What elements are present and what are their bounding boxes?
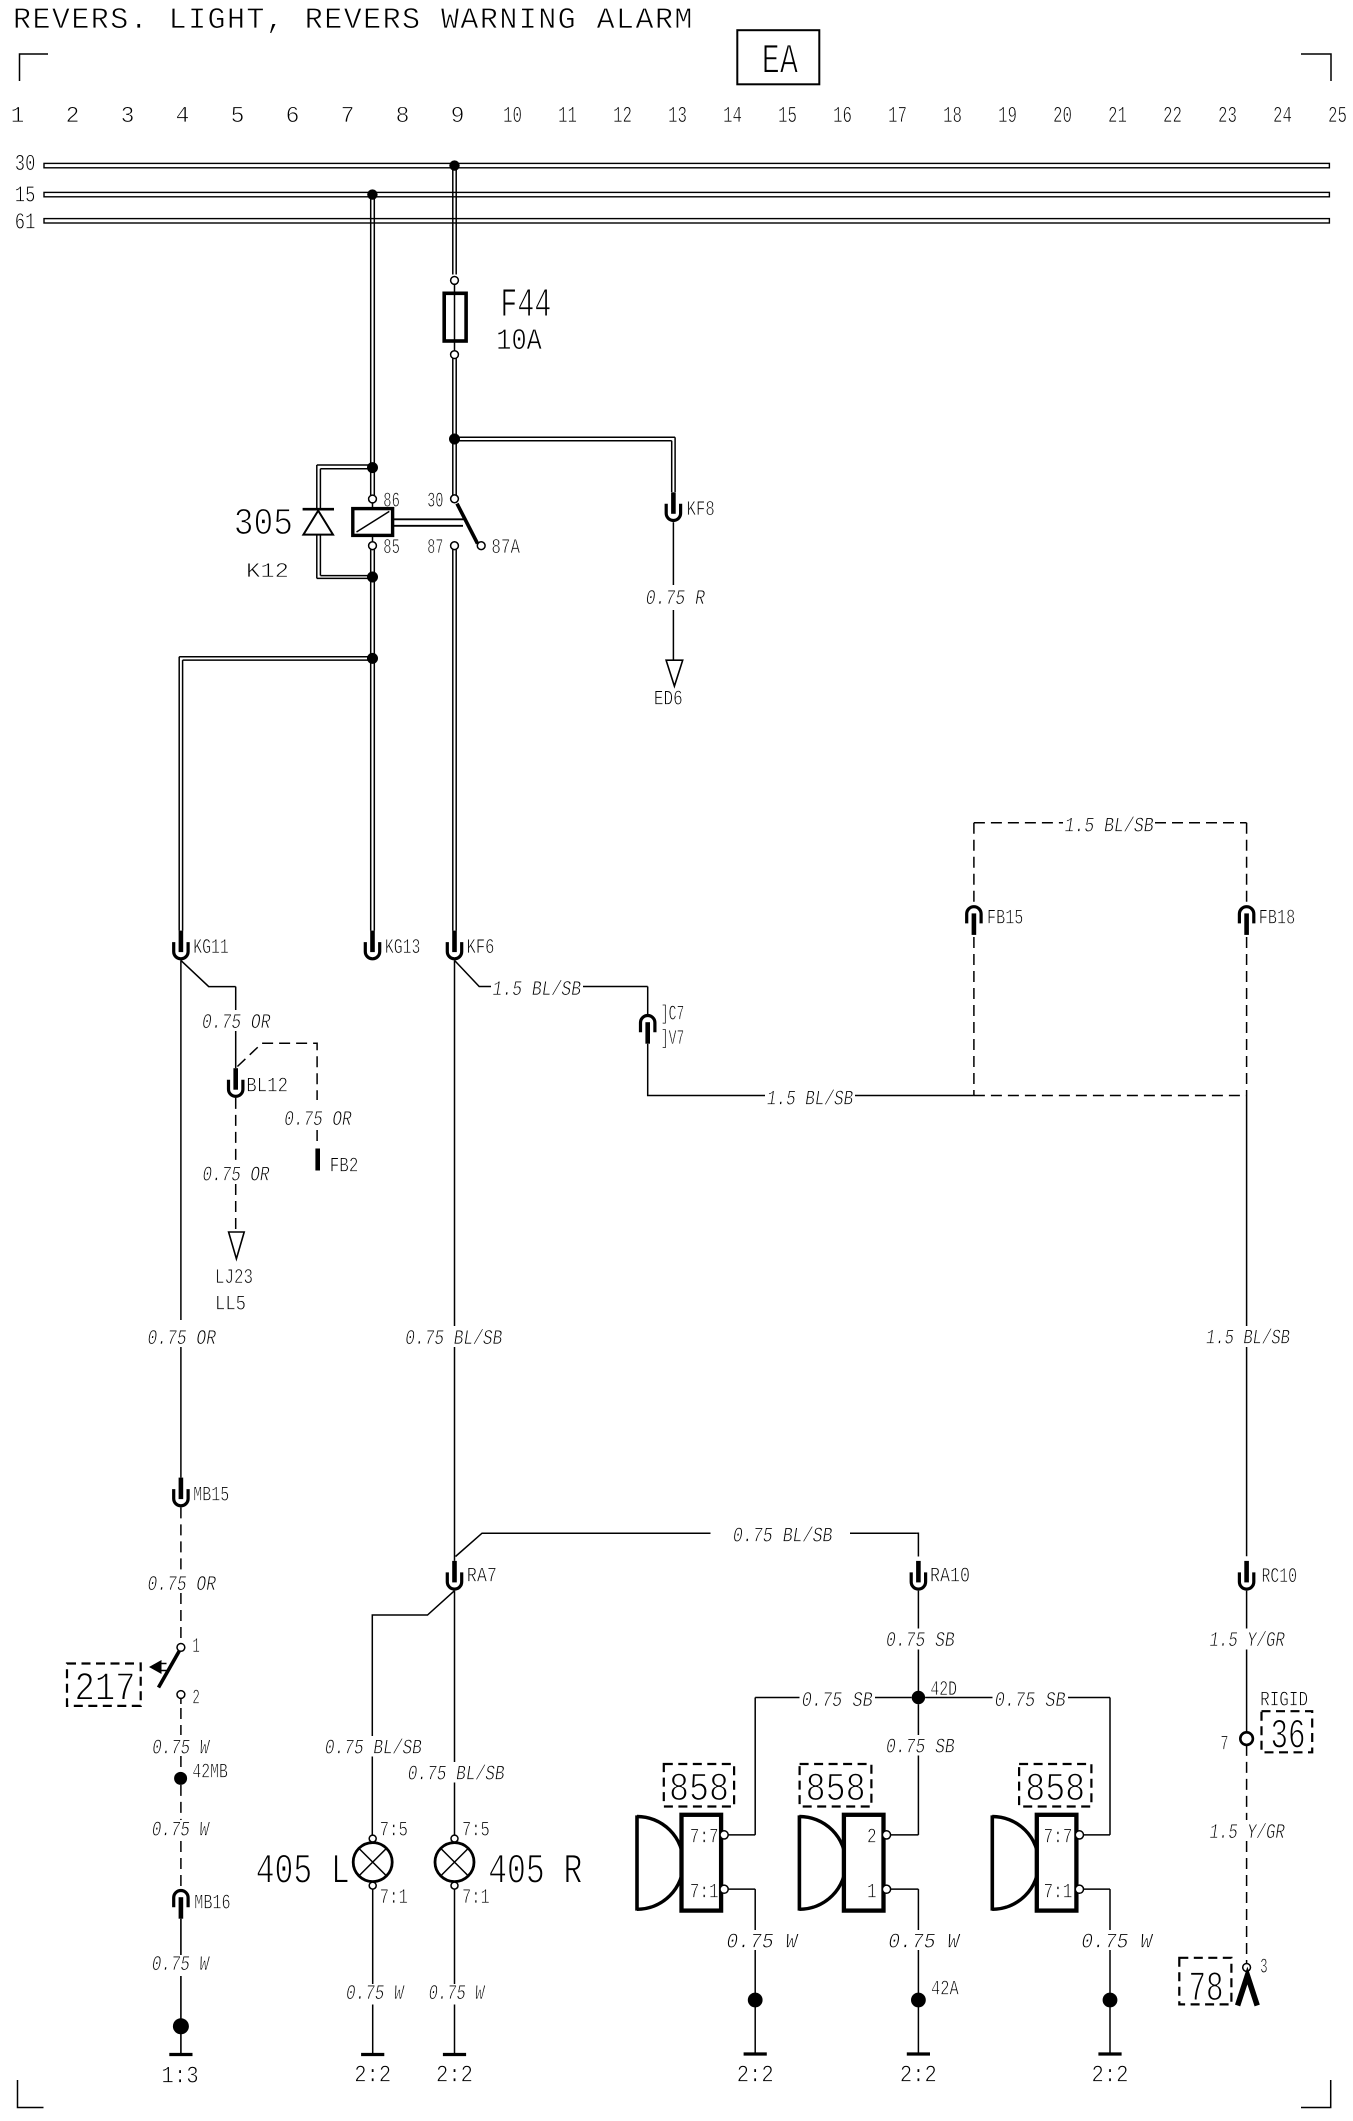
frame corner bottom-left [18, 2080, 44, 2108]
svg-text:KF8: KF8 [687, 499, 715, 522]
svg-text:7:7: 7:7 [690, 1827, 719, 1850]
svg-text:7:1: 7:1 [380, 1887, 408, 1910]
svg-text:0.75 SB: 0.75 SB [995, 1690, 1066, 1713]
svg-text:85: 85 [383, 537, 400, 560]
svg-text:7:1: 7:1 [690, 1882, 719, 1905]
buzzer (right) [990, 1815, 994, 1910]
svg-text:RIGID: RIGID [1260, 1690, 1308, 1713]
component box 858 (middle) [800, 1764, 872, 1807]
component box 36 [1262, 1711, 1313, 1752]
buzzer pin 1 (middle) [882, 1885, 890, 1893]
svg-text:3: 3 [121, 103, 135, 129]
svg-text:0.75 W: 0.75 W [346, 1983, 405, 2006]
wire double pin 87 down to KF6 [452, 550, 454, 931]
diode 305 (relay suppression) [303, 508, 334, 511]
svg-text:20: 20 [1053, 103, 1072, 129]
wire 42D middle down (0.75 SB) [917, 1704, 919, 1735]
ground 2:2 lamp R [443, 2054, 466, 2056]
svg-text:0.75 BL/SB: 0.75 BL/SB [733, 1526, 833, 1549]
bus bar 15 [44, 192, 1329, 196]
connector MB15 [174, 1478, 188, 1506]
frame corner top-right [1301, 54, 1331, 81]
wire dashed to FB18 corner [974, 1095, 1247, 1097]
svg-text:8: 8 [396, 103, 410, 129]
component box 217 [67, 1664, 141, 1706]
buzzer pin 7:1 (left) [720, 1885, 728, 1893]
svg-text:1: 1 [867, 1882, 877, 1905]
svg-text:405 L: 405 L [256, 1848, 350, 1896]
column ruler numbers 1-25 [11, 103, 1347, 129]
switch 217 pin 2 [177, 1691, 185, 1699]
terminal FB2 [315, 1149, 320, 1171]
relay coil K12 [372, 503, 374, 509]
switch arm 30-87A [457, 504, 478, 544]
switch 217 pin 1 [177, 1644, 185, 1652]
chevron antenna symbol [1238, 1976, 1258, 2006]
svg-text:1.5 BL/SB: 1.5 BL/SB [1206, 1328, 1290, 1351]
svg-text:61: 61 [15, 210, 36, 236]
lamp 405 L [369, 1835, 376, 1842]
wire dashed BL12 down to LJ23 arrow [235, 1098, 237, 1163]
wire right column down to RC10 [1246, 1096, 1248, 1327]
svg-text:1.5 Y/GR: 1.5 Y/GR [1210, 1630, 1286, 1653]
svg-text:FB2: FB2 [330, 1156, 359, 1179]
svg-text:21: 21 [1108, 103, 1127, 129]
svg-text:]V7: ]V7 [661, 1028, 685, 1051]
wire left buzzer to ground [754, 1889, 756, 1930]
svg-text:2: 2 [66, 103, 80, 129]
wire 1V7 down and right (1.5 BL/SB) [648, 1044, 765, 1096]
svg-text:LJ23: LJ23 [215, 1267, 253, 1290]
buzzer (middle) [798, 1815, 802, 1910]
switch 217 actuator arrow [149, 1660, 162, 1674]
bus bar 30 [44, 163, 1329, 167]
relay contact pin 30 [452, 439, 454, 495]
connector RC10 [1239, 1561, 1253, 1589]
arrow ED6 [666, 660, 683, 686]
svg-text:6: 6 [286, 103, 300, 129]
svg-text:0.75 SB: 0.75 SB [886, 1737, 955, 1760]
svg-text:24: 24 [1273, 103, 1292, 129]
wire KG11 column to MB15 [180, 1347, 182, 1478]
wire dashed FB18 down to corner [1246, 937, 1248, 1096]
wire dashed leader BL12 to FB2 [237, 1043, 317, 1100]
buzzer pin 7:7 (right) [1075, 1831, 1083, 1839]
wire dashed FB18 up to bridge [1246, 823, 1248, 905]
svg-text:RA10: RA10 [930, 1566, 970, 1589]
wire right buzzer to ground [1109, 1889, 1111, 1930]
svg-text:0.75 W: 0.75 W [152, 1954, 211, 1977]
svg-text:KF6: KF6 [467, 937, 495, 960]
svg-text:0.75 W: 0.75 W [888, 1932, 961, 1955]
svg-text:42D: 42D [930, 1679, 957, 1702]
wire dashed FB15 down [973, 937, 975, 1096]
svg-text:7:1: 7:1 [1044, 1882, 1073, 1905]
svg-text:2: 2 [867, 1827, 877, 1850]
svg-text:15: 15 [15, 183, 36, 209]
relay contact pin 87 [451, 542, 459, 550]
wire dashed MB15 to switch [180, 1507, 182, 1572]
fuse F44 [451, 277, 459, 285]
svg-text:18: 18 [943, 103, 962, 129]
svg-text:217: 217 [75, 1668, 136, 1713]
svg-text:22: 22 [1163, 103, 1182, 129]
connector BL12 [229, 1068, 243, 1096]
svg-text:0.75 OR: 0.75 OR [148, 1574, 217, 1597]
svg-text:2:2: 2:2 [737, 2063, 774, 2090]
wire RA10 down to 42D [917, 1591, 919, 1629]
svg-text:7:5: 7:5 [462, 1820, 490, 1843]
terminal pin 7 of 36 [1240, 1732, 1253, 1745]
node junction on bus 30 at col 9 [449, 160, 459, 170]
svg-text:1: 1 [192, 1636, 200, 1659]
ground 2:2 (middle buzzer) [907, 2053, 930, 2055]
wire label 0.75 OR [200, 1164, 273, 1184]
svg-text:25: 25 [1328, 103, 1347, 129]
svg-text:1.5 BL/SB: 1.5 BL/SB [767, 1089, 853, 1112]
node junction below fuse [449, 434, 460, 445]
svg-text:F44: F44 [500, 283, 551, 329]
node junction branch to KG11 [370, 577, 372, 931]
wire dashed 42MB to MB16 [180, 1785, 182, 1820]
svg-text:15: 15 [778, 103, 797, 129]
svg-text:0.75 OR: 0.75 OR [202, 1012, 271, 1035]
svg-text:BL12: BL12 [246, 1076, 288, 1099]
wire KG11 down to MB15 with branch to BL12 [180, 960, 182, 1320]
connector RA7 [447, 1561, 461, 1589]
svg-text:0.75 W: 0.75 W [429, 1983, 486, 2006]
svg-text:1: 1 [11, 103, 25, 129]
frame box EA [737, 30, 819, 84]
buzzer pin 2 (middle) [882, 1831, 890, 1839]
connector KG13 [365, 931, 379, 959]
wire double junction to KF8 branch [456, 436, 675, 438]
svg-text:10: 10 [503, 103, 522, 129]
svg-text:0.75 W: 0.75 W [726, 1932, 799, 1955]
svg-text:7: 7 [1220, 1734, 1228, 1757]
wire 42D right branch (0.75 SB) [925, 1697, 992, 1699]
node 42MB [174, 1772, 187, 1785]
svg-text:858: 858 [669, 1768, 729, 1813]
svg-text:LL5: LL5 [215, 1294, 246, 1317]
connector 1C7 1V7 [641, 1015, 655, 1043]
wire double diode to loop bottom [316, 535, 318, 579]
lamp 405 R [451, 1835, 458, 1842]
svg-text:REVERS. LIGHT, REVERS WARNING: REVERS. LIGHT, REVERS WARNING ALARM [13, 4, 694, 38]
svg-text:858: 858 [806, 1768, 866, 1813]
svg-text:30: 30 [427, 490, 443, 513]
svg-text:0.75 SB: 0.75 SB [802, 1690, 873, 1713]
wire label 0.75 OR [200, 1011, 273, 1031]
svg-text:0.75 OR: 0.75 OR [284, 1109, 352, 1132]
svg-text:14: 14 [723, 103, 742, 129]
svg-text:19: 19 [998, 103, 1017, 129]
node 42D [912, 1691, 925, 1704]
svg-text:9: 9 [451, 103, 465, 129]
svg-text:305: 305 [234, 503, 293, 546]
svg-text:0.75 R: 0.75 R [646, 588, 706, 611]
svg-text:KG11: KG11 [193, 937, 229, 960]
node 42A [911, 1993, 926, 2008]
wire branch to RA10 (0.75 BL/SB) [456, 1533, 711, 1556]
svg-text:2:2: 2:2 [1092, 2063, 1129, 2090]
svg-text:0.75 OR: 0.75 OR [203, 1165, 270, 1188]
wire double relay junction down to pin 86 [367, 462, 378, 473]
svg-text:K12: K12 [246, 561, 289, 584]
svg-text:42MB: 42MB [192, 1762, 228, 1785]
wire KF6 column down to RA7 [454, 960, 456, 1326]
buzzer pin 7:7 (left) [720, 1831, 728, 1839]
wire middle buzzer to 42A and ground [917, 1889, 919, 1930]
svg-text:2:2: 2:2 [436, 2063, 473, 2090]
svg-text:36: 36 [1271, 1713, 1306, 1761]
svg-text:0.75 W: 0.75 W [152, 1738, 211, 1761]
svg-text:1.5 BL/SB: 1.5 BL/SB [493, 979, 582, 1002]
connector FB15 [967, 907, 981, 935]
svg-text:2:2: 2:2 [354, 2063, 391, 2090]
svg-text:12: 12 [613, 103, 632, 129]
connector KG11 [174, 931, 188, 959]
svg-text:42A: 42A [931, 1979, 959, 2002]
wire RC10 down (1.5 Y/GR) [1246, 1591, 1248, 1629]
wire dashed bridge FB15-FB18 (1.5 BL/SB) [974, 822, 1063, 824]
wire double branch left to KG11 [179, 656, 372, 658]
connector KF8 [666, 492, 680, 520]
svg-text:KG13: KG13 [385, 937, 421, 960]
wire dashed pin2 to 42MB [180, 1698, 182, 1704]
svg-text:MB15: MB15 [193, 1485, 229, 1508]
bus bar 61 [44, 219, 1329, 223]
svg-text:0.75 W: 0.75 W [152, 1820, 211, 1843]
connector KF6 [447, 931, 461, 959]
wire RA7 branch to lamp 405 L [372, 1591, 454, 1736]
buzzer pin 7:1 (right) [1075, 1885, 1083, 1893]
component box 78 [1179, 1958, 1231, 2005]
frame corner top-left [20, 54, 49, 81]
svg-text:2: 2 [192, 1688, 200, 1711]
wire label 0.75 BL/SB (KF6 column) [403, 1327, 504, 1347]
wire MB16 to ground [180, 1919, 182, 1955]
wire down to connector 1C7 [647, 987, 649, 1015]
svg-text:2:2: 2:2 [900, 2063, 937, 2090]
wire double loop to diode (top) [317, 464, 373, 466]
svg-text:87A: 87A [491, 537, 520, 560]
wire double from bus 15 down to relay junction [370, 197, 372, 468]
terminal pin 3 of 78 [1243, 1964, 1251, 1972]
node dot [1103, 1993, 1118, 2008]
svg-text:7:7: 7:7 [1044, 1827, 1073, 1850]
switch 217 arm [159, 1651, 180, 1687]
svg-text:3: 3 [1260, 1957, 1268, 1980]
wire KF8 to ED6 [672, 522, 674, 585]
connector MB16 [174, 1891, 188, 1919]
ground 2:2 lamp L [361, 2054, 384, 2056]
svg-text:1.5 Y/GR: 1.5 Y/GR [1210, 1822, 1286, 1845]
svg-text:RA7: RA7 [467, 1566, 497, 1589]
wire lamp L to ground [372, 1889, 374, 1984]
wire RA7 down to lamp 405 R [454, 1591, 456, 1762]
connector FB18 [1239, 907, 1253, 935]
wire dashed pin 7 down (1.5 Y/GR) [1246, 1745, 1248, 1820]
wire double from fuse down to node [452, 359, 454, 440]
svg-text:16: 16 [833, 103, 852, 129]
svg-text:MB16: MB16 [194, 1893, 231, 1916]
svg-text:0.75 W: 0.75 W [1081, 1932, 1154, 1955]
wire dashed FB15 up to bridge [973, 823, 975, 905]
svg-text:0.75 BL/SB: 0.75 BL/SB [408, 1764, 505, 1787]
svg-text:7: 7 [341, 103, 355, 129]
svg-text:87: 87 [427, 537, 443, 560]
svg-text:7:1: 7:1 [462, 1887, 490, 1910]
component box 858 (left) [664, 1764, 734, 1807]
frame corner bottom-right [1301, 2080, 1331, 2108]
connector RA10 [911, 1561, 925, 1589]
svg-text:858: 858 [1025, 1768, 1085, 1813]
node dot above ground [173, 2018, 189, 2034]
svg-text:405 R: 405 R [488, 1848, 582, 1896]
svg-text:78: 78 [1189, 1965, 1224, 2013]
svg-text:1:3: 1:3 [161, 2064, 198, 2091]
wire double from bus 30 down to fuse [452, 168, 454, 275]
wire label 0.75 BL/SB [323, 1736, 424, 1756]
relay contact pin 87A [477, 542, 485, 550]
svg-text:0.75 OR: 0.75 OR [148, 1328, 217, 1351]
svg-text:7:5: 7:5 [380, 1820, 408, 1843]
svg-text:10A: 10A [496, 325, 542, 359]
svg-text:ED6: ED6 [654, 689, 683, 712]
node junction below relay [367, 572, 378, 583]
svg-text:5: 5 [231, 103, 245, 129]
svg-text:1.5 BL/SB: 1.5 BL/SB [1065, 816, 1154, 839]
ground 2:2 (right buzzer) [1098, 2053, 1121, 2055]
wire 42D left branch (0.75 SB) [755, 1697, 799, 1699]
ground 1:3 [169, 2054, 192, 2056]
svg-text:0.75 SB: 0.75 SB [886, 1630, 955, 1653]
relay pin 85 [372, 535, 374, 541]
wire label 0.75 OR (KG11 column) [146, 1327, 219, 1347]
relay pin 86 [369, 495, 377, 503]
svg-text:RC10: RC10 [1262, 1566, 1298, 1589]
svg-text:4: 4 [176, 103, 190, 129]
svg-text:0.75 BL/SB: 0.75 BL/SB [325, 1738, 422, 1761]
wire double pin 85 to node [370, 550, 372, 578]
svg-text:11: 11 [558, 103, 577, 129]
component box 858 (right) [1019, 1764, 1091, 1807]
svg-text:FB18: FB18 [1259, 908, 1295, 931]
buzzer (left) [635, 1815, 639, 1910]
svg-text:FB15: FB15 [987, 908, 1023, 931]
node junction on bus 15 at col 7.5 [367, 189, 377, 199]
relay actuator link [393, 518, 466, 520]
wire KF6 diagonal to 1.5 BL/SB net [455, 960, 492, 986]
wire lamp R to ground [454, 1889, 456, 1984]
ground 2:2 (left buzzer) [744, 2053, 767, 2055]
svg-text:]C7: ]C7 [661, 1003, 685, 1026]
svg-text:30: 30 [15, 151, 36, 177]
svg-text:23: 23 [1218, 103, 1237, 129]
node dot [748, 1993, 763, 2008]
arrow LJ23 LL5 [229, 1232, 245, 1259]
wire label 0.75 OR [282, 1108, 355, 1128]
svg-text:17: 17 [888, 103, 907, 129]
svg-text:EA: EA [762, 37, 799, 85]
svg-text:13: 13 [668, 103, 687, 129]
